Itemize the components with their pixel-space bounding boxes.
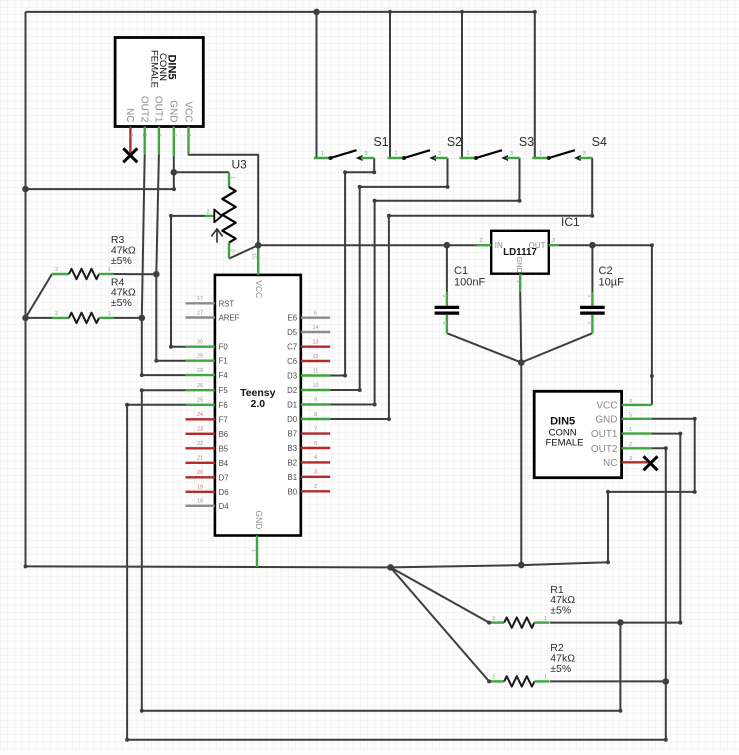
svg-text:S4: S4 (592, 135, 607, 149)
svg-text:1: 1 (587, 295, 593, 298)
svg-text:C6: C6 (287, 357, 297, 366)
wire C2 top lead (591, 245, 593, 292)
svg-text:3: 3 (127, 134, 133, 137)
wire S2 feed from top rail (389, 12, 391, 158)
regulator IC1 LD1117 body (491, 231, 549, 274)
pin Teensy E6 stub (301, 317, 330, 319)
svg-text:3: 3 (438, 151, 441, 157)
wire bendpoint (489.1,622.6) (487, 621, 491, 625)
wire LD1117 GND lead down (520, 292, 521, 363)
svg-text:4: 4 (629, 398, 632, 404)
svg-text:15: 15 (251, 253, 257, 259)
node DIN5-A GND (171, 169, 178, 176)
node VCC / U3 (255, 242, 262, 249)
wire U3 pin3 diagonal to VCC node (229, 245, 258, 258)
pin Teensy GND stub (256, 536, 258, 568)
switch S4 left stub (532, 157, 549, 159)
pin J2 VCC stub (622, 404, 652, 406)
svg-text:6: 6 (314, 311, 317, 317)
potentiometer U3 wiper stub (205, 215, 214, 217)
wire R3 left diagonal to rail (26, 274, 53, 318)
switch S2 pivot (402, 156, 406, 160)
svg-text:D5: D5 (287, 328, 298, 337)
svg-text:3: 3 (510, 151, 513, 157)
svg-text:1: 1 (108, 267, 111, 273)
svg-text:RST: RST (219, 299, 235, 308)
node R4 / OUT2 line (139, 315, 146, 322)
wire S4 feed from top rail (534, 12, 536, 158)
svg-text:IC1: IC1 (561, 215, 580, 229)
switch S2 left stub (388, 157, 405, 159)
switch S4 right stub (579, 157, 592, 159)
svg-text:2: 2 (441, 322, 447, 325)
svg-text:B4: B4 (219, 459, 229, 468)
pin IC1 GND stub (519, 274, 521, 292)
svg-text:1: 1 (544, 616, 547, 622)
svg-text:11: 11 (313, 368, 319, 374)
connector J2 DIN5-B body (534, 391, 621, 477)
svg-text:OUT1: OUT1 (153, 96, 164, 123)
resistor R1 body (504, 617, 534, 627)
wire C1 top lead (446, 245, 448, 292)
svg-text:D7: D7 (219, 473, 229, 482)
svg-text:F5: F5 (219, 386, 229, 395)
wire bendpoint (345.1,375.5) (343, 374, 347, 378)
svg-text:F6: F6 (219, 401, 228, 410)
svg-text:1: 1 (539, 151, 542, 157)
svg-text:±5%: ±5% (550, 604, 571, 616)
wire bendpoint (345.1,172.3) (343, 170, 347, 174)
node GND top-rail / S1 feed (313, 9, 320, 16)
svg-text:2: 2 (480, 238, 483, 244)
potentiometer U3 wiper arrow (214, 210, 222, 223)
pin Teensy F0 stub (186, 346, 215, 348)
svg-text:1: 1 (230, 176, 236, 179)
pin Teensy B7 stub (301, 432, 330, 434)
svg-text:F4: F4 (219, 371, 229, 380)
svg-text:OUT2: OUT2 (139, 96, 150, 123)
svg-text:FEMALE: FEMALE (149, 50, 160, 88)
wire bendpoint (388.9,215.8) (387, 214, 391, 218)
svg-text:B3: B3 (288, 444, 298, 453)
wire DIN5-B OUT1 down (652, 434, 680, 623)
svg-text:22: 22 (197, 441, 203, 447)
svg-text:23: 23 (197, 427, 203, 433)
wire bendpoint (462,11.9) (460, 10, 464, 14)
wire bendpoint (665.8,739.8) (664, 738, 668, 742)
svg-text:D3: D3 (287, 372, 297, 381)
svg-text:4: 4 (314, 455, 317, 461)
svg-text:17: 17 (197, 296, 203, 302)
svg-text:1: 1 (155, 134, 161, 137)
wire R4 left to rail (26, 317, 53, 319)
svg-text:GND: GND (515, 256, 524, 273)
svg-text:VCC: VCC (182, 101, 193, 122)
wire C2 bottom diagonal to GND node (521, 333, 592, 362)
wire bendpoint (359.7,390.0) (358, 388, 362, 392)
capacitor C1 bottom stub (446, 315, 448, 334)
svg-text:1: 1 (467, 151, 470, 157)
pin J1 OUT2 stub (143, 127, 145, 155)
pin J1 GND stub (173, 127, 175, 156)
switch S3 arrow (501, 155, 508, 161)
svg-text:3: 3 (629, 456, 632, 462)
pin J2 OUT1 stub (622, 432, 652, 434)
svg-text:±5%: ±5% (111, 255, 132, 267)
potentiometer U3 pin3 stub (228, 243, 230, 259)
capacitor C2 plates (580, 307, 605, 313)
pin Teensy F7 stub (186, 418, 215, 420)
resistor R3 right stub (99, 273, 114, 275)
wire bendpoint (141.8,710.7) (140, 709, 144, 713)
pin Teensy RST stub (186, 302, 215, 304)
pin Teensy F6 stub (186, 404, 215, 406)
switch S1 right stub (361, 157, 374, 159)
pin Teensy D4 stub (186, 505, 215, 507)
node GND rail fanout (387, 564, 394, 571)
svg-text:5: 5 (170, 134, 176, 137)
pin Teensy B5 stub (186, 447, 215, 449)
svg-text:F1: F1 (219, 357, 228, 366)
wire GND node to left rail (26, 172, 174, 189)
wire R1 node to Teensy F5 (142, 390, 621, 711)
svg-text:2: 2 (55, 267, 58, 273)
pin J2 OUT2 stub (622, 447, 652, 449)
wire S3 output to Teensy D1 (330, 158, 519, 405)
svg-text:S2: S2 (447, 135, 462, 149)
svg-text:U3: U3 (232, 157, 248, 171)
resistor R3 left stub (52, 273, 69, 275)
svg-text:B2: B2 (288, 458, 298, 467)
wire bendpoint (608,491.9) (606, 490, 610, 494)
svg-text:OUT1: OUT1 (591, 429, 618, 440)
svg-text:24: 24 (197, 412, 203, 418)
wire bendpoint (680.3,433.6) (678, 432, 682, 436)
wire bendpoint (694.7,418.8) (693, 417, 697, 421)
wire LD1117 OUT to DIN5-B VCC (558, 245, 652, 405)
svg-text:9: 9 (314, 397, 317, 403)
svg-text:OUT2: OUT2 (591, 444, 618, 455)
switch S2 arrow (429, 155, 436, 161)
potentiometer U3 pin1 stub (228, 172, 230, 187)
wire bendpoint (127.1,404.8) (125, 403, 129, 407)
svg-text:10: 10 (312, 383, 318, 389)
svg-text:1: 1 (321, 151, 324, 157)
svg-text:NC: NC (603, 458, 617, 469)
switch S4 lever (549, 150, 575, 158)
svg-text:S1: S1 (373, 135, 388, 149)
wire bendpoint (447.5,186.9) (446, 185, 450, 189)
pin Teensy B0 stub (301, 490, 330, 492)
wire bendpoint (680.3,622.6) (678, 621, 682, 625)
wire bendpoint (665.8,448.3) (664, 446, 668, 450)
svg-text:F7: F7 (219, 415, 228, 424)
switch S3 left stub (460, 157, 477, 159)
resistor R3 body (69, 269, 99, 279)
wire bendpoint (534.8,11.9) (533, 10, 537, 14)
wire DIN5-A GND down to node (173, 156, 175, 173)
svg-text:29: 29 (197, 354, 203, 360)
pin Teensy D1 stub (301, 403, 330, 405)
svg-text:4: 4 (185, 134, 191, 137)
svg-text:C1: C1 (454, 265, 468, 277)
wire bendpoint (374.6,200.8) (373, 199, 377, 203)
resistor R2 left stub (489, 680, 504, 682)
wire bendpoint (651.9,376.0) (650, 374, 654, 378)
node R3 / OUT1 line (153, 271, 160, 278)
wire bendpoint (620.4,710.7) (618, 709, 622, 713)
pin J1 NC stub (129, 127, 131, 155)
pin Teensy VCC stub (257, 245, 259, 275)
svg-text:3: 3 (314, 470, 317, 476)
capacitor C2 bottom stub (591, 315, 593, 334)
svg-text:B1: B1 (288, 473, 298, 482)
wire DIN5-A OUT2 to R4/Teensy F4 (142, 154, 186, 375)
pin J2 GND stub (622, 418, 652, 420)
capacitor C1 plates (435, 307, 460, 313)
svg-text:C2: C2 (599, 265, 613, 277)
node left rail / GND wire (22, 186, 29, 193)
pin Teensy B2 stub (301, 461, 330, 463)
resistor R1 right stub (534, 621, 549, 623)
svg-text:8: 8 (314, 412, 317, 418)
wire bendpoint (651.9,245.2) (650, 243, 654, 247)
wire bendpoint (171,215.9) (169, 214, 173, 218)
wire GND node down to bottom rail (520, 363, 522, 566)
wire R1 right to OUT1 line (550, 622, 680, 624)
svg-text:B5: B5 (219, 444, 229, 453)
node GND rail / cap return (518, 562, 525, 569)
svg-text:2: 2 (492, 616, 495, 622)
wire left GND rail (25, 12, 27, 567)
connector J1 DIN5-A body (115, 38, 203, 127)
svg-text:D4: D4 (219, 502, 230, 511)
svg-text:7: 7 (314, 426, 317, 432)
svg-text:1: 1 (544, 675, 547, 681)
wire C1 bottom diagonal to GND node (447, 333, 521, 362)
capacitor C2 top stub (591, 292, 593, 306)
wire bendpoint (489.1,681.4) (487, 679, 491, 683)
svg-text:1: 1 (395, 151, 398, 157)
wire bottom GND rail (26, 419, 695, 568)
svg-text:2: 2 (492, 675, 495, 681)
svg-text:IN: IN (495, 241, 503, 250)
svg-text:B0: B0 (288, 487, 298, 496)
pin IC1 OUT stub (549, 244, 559, 246)
pin Teensy B6 stub (186, 433, 215, 435)
svg-text:3: 3 (583, 151, 586, 157)
wire S1 output to Teensy D3 (330, 158, 374, 376)
switch S3 lever (476, 150, 502, 158)
svg-text:2.0: 2.0 (250, 398, 265, 410)
svg-text:±5%: ±5% (550, 663, 571, 675)
wire bendpoint (141.8,375.1) (140, 373, 144, 377)
wire GND rail diagonal to R2 (391, 567, 490, 681)
node C2 / OUT wire (589, 242, 596, 249)
switch S1 arrow (356, 155, 363, 161)
wire bendpoint (25.5,566.4) (24, 564, 28, 568)
svg-text:F0: F0 (219, 343, 229, 352)
svg-text:13: 13 (312, 340, 318, 346)
pin Teensy D7 stub (186, 476, 215, 478)
wire bendpoint (156.3,360.7) (154, 359, 158, 363)
svg-text:2: 2 (207, 209, 210, 215)
wire bendpoint (592.2,215.8) (590, 214, 594, 218)
switch S4 arrow (574, 155, 581, 161)
svg-text:2: 2 (629, 442, 632, 448)
wire bendpoint (694.7,491.9) (693, 490, 697, 494)
svg-text:E6: E6 (288, 314, 298, 323)
svg-text:B6: B6 (219, 430, 229, 439)
svg-text:14: 14 (312, 325, 318, 331)
switch S1 lever (331, 150, 357, 158)
svg-text:3: 3 (552, 238, 555, 244)
wire bendpoint (519.5,200.8) (518, 199, 522, 203)
svg-text:25: 25 (197, 398, 203, 404)
pin J1 OUT1 stub (158, 127, 160, 155)
wire bendpoint (171,346.7) (169, 345, 173, 349)
pin Teensy AREF stub (186, 316, 215, 318)
wire VCC node to C1/LD1117 IN (258, 244, 477, 246)
wire DIN5-A OUT1 to R3/Teensy F1 (156, 154, 185, 361)
wire bendpoint (608,562.3) (606, 560, 610, 564)
svg-text:3: 3 (365, 151, 368, 157)
pin Teensy F5 stub (186, 389, 215, 391)
svg-text:18: 18 (197, 499, 203, 505)
switch S2 lever (404, 150, 430, 158)
wire bendpoint (374.6,404.5) (373, 403, 377, 407)
svg-text:3: 3 (230, 249, 236, 252)
wire R4 right to OUT2 line (114, 317, 142, 319)
wire DIN5-A VCC to U3 top node (189, 154, 259, 245)
capacitor C1 top stub (446, 292, 448, 306)
wire bendpoint (127.1,739.8) (125, 738, 129, 742)
pin Teensy D3 stub (301, 374, 330, 376)
switch S4 pivot (547, 156, 551, 160)
pin Teensy D6 stub (186, 491, 215, 493)
wire S4 output to Teensy D0 (330, 158, 592, 419)
svg-text:GND: GND (168, 100, 179, 122)
svg-text:100nF: 100nF (454, 276, 485, 288)
svg-text:12: 12 (312, 354, 318, 360)
pin Teensy F1 stub (186, 360, 215, 362)
node left rail / R3 R4 (22, 315, 29, 322)
switch S3 pivot (474, 156, 478, 160)
resistor R2 body (504, 676, 534, 686)
wire GND node to pot pin1 (174, 171, 229, 173)
pin Teensy D5 stub (301, 331, 330, 333)
svg-text:DIN5: DIN5 (550, 416, 575, 428)
wire S2 output to Teensy D2 (330, 158, 447, 390)
svg-text:VCC: VCC (254, 280, 264, 298)
wire bendpoint (174,189.1) (172, 187, 176, 191)
switch S1 left stub (314, 157, 331, 159)
pin Teensy C6 stub (301, 360, 330, 362)
svg-text:FEMALE: FEMALE (545, 437, 583, 448)
no-connect X on J1 NC (123, 148, 137, 162)
svg-text:D6: D6 (219, 488, 229, 497)
pin J2 NC stub (622, 461, 648, 463)
resistor R4 left stub (52, 317, 69, 319)
svg-text:S3: S3 (519, 135, 534, 149)
resistor R4 right stub (99, 317, 114, 319)
pin Teensy B4 stub (186, 462, 215, 464)
resistor R2 right stub (534, 680, 549, 682)
node R2 / OUT2 (663, 678, 670, 685)
svg-text:27: 27 (197, 310, 203, 316)
svg-text:21: 21 (197, 456, 203, 462)
svg-text:30: 30 (197, 340, 203, 346)
svg-text:AREF: AREF (219, 314, 240, 323)
pin Teensy B3 stub (301, 447, 330, 449)
node R1 / OUT1 (617, 619, 624, 626)
pin Teensy D0 stub (301, 418, 330, 420)
svg-text:D0: D0 (287, 415, 298, 424)
pin IC1 IN stub (477, 244, 491, 246)
svg-text:5: 5 (314, 441, 317, 447)
pin Teensy C7 stub (301, 346, 330, 348)
potentiometer U3 body zigzag (222, 187, 235, 243)
wire bendpoint (390,11.9) (388, 10, 392, 14)
potentiometer U3 trim arrow (211, 229, 222, 243)
svg-text:C7: C7 (287, 343, 297, 352)
wire bendpoint (388.9,419.0) (387, 417, 391, 421)
wire R3 right to OUT1 line (114, 273, 157, 275)
node GND star below IC1 (518, 359, 525, 366)
svg-text:GND: GND (254, 511, 264, 530)
svg-text:1: 1 (441, 295, 447, 298)
svg-text:1: 1 (250, 549, 256, 552)
switch S2 right stub (434, 157, 447, 159)
pin Teensy D2 stub (301, 389, 330, 391)
no-connect X on J2 NC (644, 456, 658, 470)
svg-text:2: 2 (141, 134, 147, 137)
svg-text:GND: GND (595, 414, 617, 425)
svg-text:VCC: VCC (596, 400, 617, 411)
resistor R1 left stub (489, 621, 504, 623)
svg-text:10µF: 10µF (599, 276, 625, 288)
wire S1 feed from top rail (316, 12, 318, 158)
svg-text:26: 26 (197, 383, 203, 389)
node C1 / IN wire (444, 242, 451, 249)
microcontroller Teensy 2.0 body (215, 275, 301, 536)
pin Teensy F4 stub (186, 374, 215, 376)
svg-text:1: 1 (108, 311, 111, 317)
pin J1 VCC stub (187, 127, 189, 155)
wire top GND rail (26, 11, 535, 13)
switch S1 pivot (329, 156, 333, 160)
svg-text:1: 1 (629, 427, 632, 433)
svg-text:B7: B7 (288, 430, 298, 439)
switch S3 right stub (506, 157, 519, 159)
svg-text:20: 20 (197, 470, 203, 476)
resistor R4 body (69, 313, 99, 323)
wire bendpoint (359.7,186.9) (358, 185, 362, 189)
svg-text:2: 2 (587, 322, 593, 325)
wire bendpoint (141.8,390.2) (140, 388, 144, 392)
svg-text:2: 2 (55, 311, 58, 317)
wire S3 feed from top rail (461, 12, 463, 158)
svg-text:5: 5 (629, 412, 632, 418)
svg-text:2: 2 (314, 484, 317, 490)
pin Teensy B1 stub (301, 476, 330, 478)
svg-text:±5%: ±5% (111, 297, 132, 309)
wire DIN5-B OUT2 down to Teensy F6 (127, 405, 666, 740)
svg-text:28: 28 (197, 368, 203, 374)
wire bendpoint (374.2,172.3) (372, 170, 376, 174)
svg-text:1: 1 (515, 280, 521, 283)
svg-text:D2: D2 (287, 386, 297, 395)
